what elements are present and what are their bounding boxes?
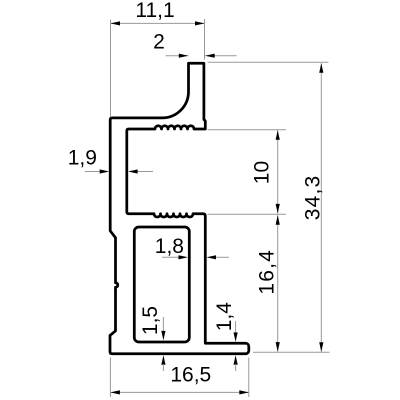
svg-text:16,5: 16,5 — [170, 364, 211, 387]
profile outline — [110, 63, 249, 353]
svg-text:16,4: 16,4 — [256, 249, 279, 295]
svg-text:1,9: 1,9 — [68, 147, 97, 170]
svg-text:11,1: 11,1 — [135, 0, 174, 22]
svg-text:1,8: 1,8 — [155, 235, 184, 258]
svg-text:1,5: 1,5 — [139, 306, 162, 335]
svg-text:1,4: 1,4 — [213, 302, 236, 332]
svg-text:10: 10 — [251, 161, 274, 184]
inner cavity — [134, 227, 189, 342]
svg-text:34,3: 34,3 — [302, 175, 325, 221]
svg-text:2: 2 — [153, 31, 165, 54]
